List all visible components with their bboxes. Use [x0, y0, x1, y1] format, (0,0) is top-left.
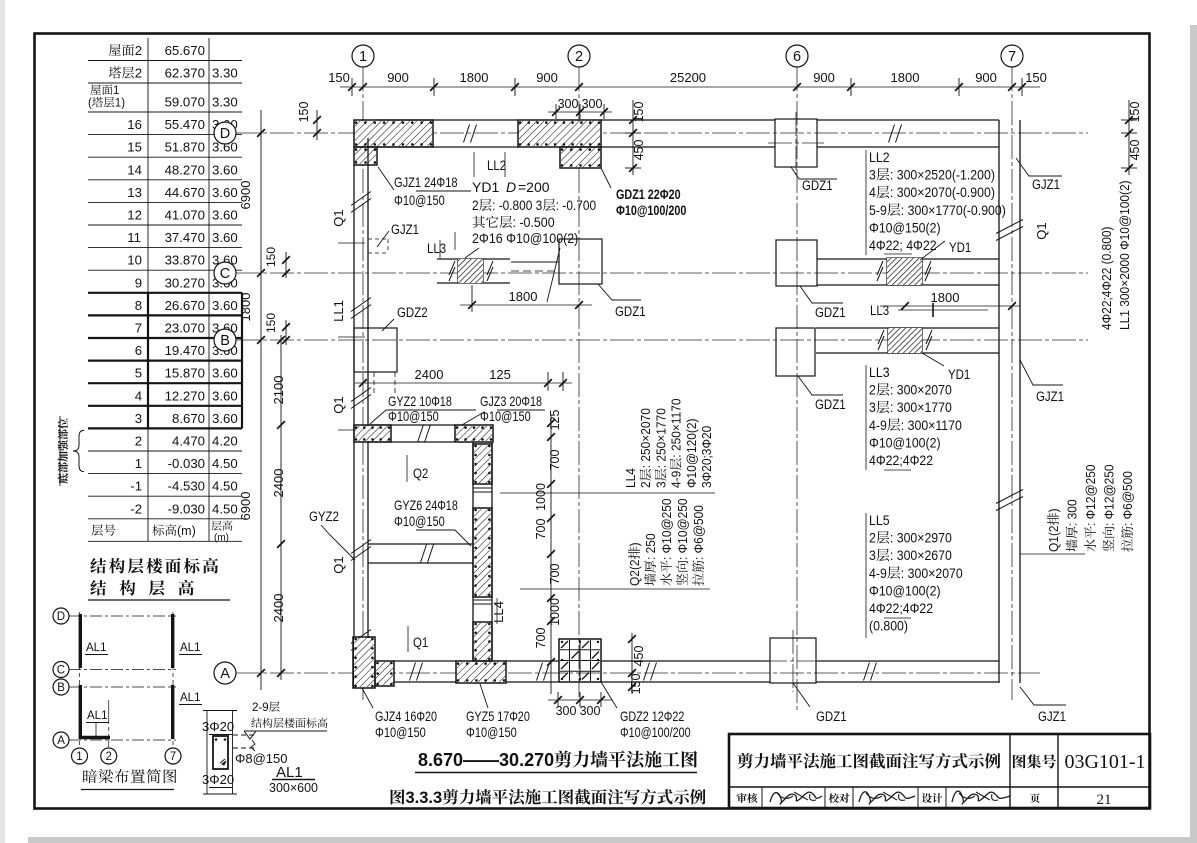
svg-text:4-9: 4-9: [869, 417, 887, 433]
svg-text:A: A: [220, 666, 230, 682]
svg-text:3: 3: [869, 399, 876, 415]
svg-text:300: 300: [580, 704, 601, 718]
svg-text:3.60: 3.60: [212, 366, 238, 381]
svg-text:4Φ22;4Φ22 (0.800): 4Φ22;4Φ22 (0.800): [1100, 227, 1115, 330]
svg-text:900: 900: [813, 70, 835, 85]
svg-text:-4.530: -4.530: [168, 479, 205, 494]
svg-text:3.30: 3.30: [212, 66, 238, 81]
svg-text:GDZ1: GDZ1: [615, 304, 646, 319]
svg-text:LL3: LL3: [869, 364, 890, 380]
svg-text:GDZ1: GDZ1: [815, 305, 846, 320]
svg-text:LL3: LL3: [870, 303, 889, 318]
svg-text:2: 2: [472, 197, 479, 213]
svg-text:125: 125: [489, 367, 511, 382]
svg-text:-1: -1: [130, 479, 142, 494]
svg-text:59.070: 59.070: [165, 95, 205, 110]
svg-text:3.3.3: 3.3.3: [406, 789, 443, 807]
svg-text:3.60: 3.60: [212, 162, 238, 177]
svg-text:Q1: Q1: [1034, 222, 1049, 239]
svg-text:GJZ4 16Φ20: GJZ4 16Φ20: [375, 709, 437, 724]
svg-text:44.670: 44.670: [165, 185, 205, 200]
svg-text:3: 3: [869, 167, 876, 183]
svg-text:125: 125: [548, 409, 562, 430]
svg-text:-2: -2: [130, 501, 142, 516]
svg-text:1800: 1800: [891, 70, 920, 85]
svg-text:LL4: LL4: [624, 468, 639, 488]
svg-text:6900: 6900: [238, 181, 253, 210]
svg-text:1800: 1800: [238, 293, 253, 322]
svg-text:4.50: 4.50: [212, 479, 238, 494]
svg-text:: 250×2070: : 250×2070: [639, 408, 654, 468]
svg-text:2Φ16 Φ10@100(2): 2Φ16 Φ10@100(2): [472, 231, 578, 247]
svg-text:: 300×2070: : 300×2070: [901, 565, 963, 581]
svg-text:C: C: [220, 266, 230, 282]
svg-text:: 250: : 250: [644, 533, 659, 560]
svg-text:300×600: 300×600: [269, 781, 318, 795]
svg-text:8.670: 8.670: [172, 411, 205, 426]
svg-text:4-9: 4-9: [669, 471, 684, 488]
svg-text:4.470: 4.470: [172, 434, 205, 449]
svg-text:700: 700: [548, 449, 562, 470]
svg-text:Φ10@150: Φ10@150: [394, 193, 445, 208]
svg-text:LL2: LL2: [487, 158, 506, 173]
svg-text:900: 900: [536, 70, 558, 85]
svg-text:Φ10@100(2): Φ10@100(2): [869, 583, 941, 599]
svg-text:GYZ2: GYZ2: [309, 509, 339, 524]
svg-text:Φ10@150: Φ10@150: [375, 725, 426, 740]
svg-text:3.60: 3.60: [212, 230, 238, 245]
svg-text:B: B: [57, 682, 65, 694]
svg-text:LL1 300×2000 Φ10@100(2): LL1 300×2000 Φ10@100(2): [1118, 180, 1133, 330]
svg-text:450: 450: [632, 645, 646, 666]
svg-text:1): 1): [115, 98, 125, 110]
svg-text:16: 16: [127, 117, 142, 132]
svg-text:LL5: LL5: [869, 512, 890, 528]
svg-text:150: 150: [1025, 70, 1047, 85]
svg-text:3: 3: [654, 481, 669, 488]
svg-text:1000: 1000: [548, 598, 562, 626]
svg-text:6: 6: [135, 343, 142, 358]
svg-text:Φ10@150: Φ10@150: [394, 514, 445, 529]
svg-text:1800: 1800: [460, 70, 489, 85]
svg-text:C: C: [57, 665, 65, 677]
svg-text:33.870: 33.870: [165, 253, 205, 268]
svg-text:: 300×2070(-0.900): : 300×2070(-0.900): [890, 184, 995, 200]
svg-text:: 250×1170: : 250×1170: [669, 398, 684, 457]
svg-text:(m): (m): [177, 524, 196, 538]
svg-text:Φ10@150: Φ10@150: [388, 409, 439, 424]
svg-text:GDZ1: GDZ1: [816, 709, 847, 724]
svg-text:62.370: 62.370: [165, 66, 205, 81]
svg-text:450: 450: [1128, 139, 1142, 160]
svg-text:Φ10@100(2): Φ10@100(2): [869, 435, 941, 451]
svg-text:7: 7: [170, 751, 176, 763]
svg-text:AL1: AL1: [87, 710, 107, 722]
svg-text:26.670: 26.670: [165, 298, 205, 313]
svg-text:(: (: [88, 98, 92, 110]
svg-text:Φ10@150: Φ10@150: [480, 409, 531, 424]
svg-text:GDZ1: GDZ1: [815, 397, 846, 412]
svg-text:Q2: Q2: [413, 466, 428, 481]
svg-text:8.670——30.270: 8.670——30.270: [418, 750, 554, 770]
svg-text:: Φ6@500: : Φ6@500: [1121, 471, 1136, 526]
svg-text:Φ10@150(2): Φ10@150(2): [869, 220, 941, 236]
svg-text:11: 11: [127, 230, 141, 245]
svg-text:2: 2: [135, 434, 142, 449]
svg-text:YD1: YD1: [949, 240, 971, 255]
svg-text:2400: 2400: [271, 469, 286, 498]
svg-text:-9.030: -9.030: [168, 501, 205, 516]
svg-text:GJZ1: GJZ1: [1036, 389, 1064, 404]
svg-text:300: 300: [582, 97, 603, 111]
svg-text:Q1: Q1: [331, 556, 346, 573]
svg-text:D: D: [506, 179, 516, 195]
svg-text:: 300×2670: : 300×2670: [890, 547, 952, 563]
svg-text:150: 150: [264, 247, 278, 267]
svg-text:41.070: 41.070: [165, 208, 205, 223]
svg-text:13: 13: [127, 185, 142, 200]
svg-text:4Φ22;4Φ22: 4Φ22;4Φ22: [869, 600, 933, 616]
svg-text:6900: 6900: [238, 492, 253, 521]
svg-text:1: 1: [359, 49, 367, 65]
svg-text:GJZ1: GJZ1: [1032, 177, 1060, 192]
svg-text:03G101-1: 03G101-1: [1064, 751, 1145, 773]
svg-text:3Φ20: 3Φ20: [202, 772, 234, 787]
svg-text:4Φ22; 4Φ22: 4Φ22; 4Φ22: [869, 237, 937, 253]
svg-text:2: 2: [639, 481, 654, 488]
svg-text:3.30: 3.30: [212, 95, 238, 110]
svg-text:YD1: YD1: [472, 179, 499, 195]
svg-text:6: 6: [793, 49, 801, 65]
svg-text:1800: 1800: [509, 289, 538, 304]
svg-text:65.670: 65.670: [165, 43, 205, 58]
svg-text:900: 900: [387, 70, 409, 85]
svg-text:: 300×2520(-1.200): : 300×2520(-1.200): [890, 167, 995, 183]
svg-text:5-9: 5-9: [869, 202, 887, 218]
svg-text:3.60: 3.60: [212, 208, 238, 223]
svg-text:LL3: LL3: [427, 241, 446, 256]
svg-text:3.60: 3.60: [212, 298, 238, 313]
svg-text:150: 150: [1128, 101, 1142, 122]
svg-text:4: 4: [135, 388, 142, 403]
svg-text:GJZ3 20Φ18: GJZ3 20Φ18: [480, 394, 542, 409]
svg-text:A: A: [57, 735, 65, 747]
svg-text:2: 2: [869, 530, 876, 546]
svg-text:3.60: 3.60: [212, 185, 238, 200]
svg-text:150: 150: [264, 313, 278, 333]
svg-text:21: 21: [1097, 792, 1112, 808]
svg-text:1: 1: [76, 751, 82, 763]
svg-text:B: B: [220, 333, 230, 349]
svg-text:AL1: AL1: [86, 642, 106, 654]
svg-text:3.60: 3.60: [212, 411, 238, 426]
svg-text:450: 450: [632, 139, 646, 160]
svg-text:9: 9: [135, 275, 142, 290]
svg-text:: 250×1770: : 250×1770: [654, 408, 669, 468]
svg-text:1: 1: [113, 85, 119, 97]
svg-text:: Φ10@250: : Φ10@250: [660, 498, 675, 560]
svg-text:700: 700: [534, 627, 548, 648]
svg-text:Q2(2: Q2(2: [628, 559, 643, 586]
svg-text:Q1: Q1: [331, 396, 346, 413]
svg-text:700: 700: [548, 563, 562, 584]
svg-text:: 300×2970: : 300×2970: [890, 530, 952, 546]
svg-text:19.470: 19.470: [165, 343, 205, 358]
svg-text:7: 7: [135, 321, 142, 336]
svg-text:Q1: Q1: [331, 209, 346, 226]
svg-text:25200: 25200: [670, 70, 706, 85]
svg-text:Φ10@120(2): Φ10@120(2): [684, 418, 699, 488]
svg-text:: -0.500: : -0.500: [513, 215, 555, 231]
svg-text:900: 900: [975, 70, 997, 85]
svg-text:4.50: 4.50: [212, 456, 238, 471]
svg-text:2: 2: [869, 382, 876, 398]
svg-text:2400: 2400: [415, 367, 444, 382]
svg-text:2400: 2400: [271, 594, 286, 623]
svg-text:AL1: AL1: [180, 692, 200, 704]
svg-text:700: 700: [534, 518, 548, 539]
svg-text:1000: 1000: [534, 483, 548, 511]
svg-text:150: 150: [632, 101, 646, 122]
svg-text:2-9: 2-9: [252, 702, 269, 714]
svg-text:Φ10@100/200: Φ10@100/200: [616, 203, 687, 218]
svg-text:: 300×1770(-0.900): : 300×1770(-0.900): [901, 202, 1006, 218]
svg-text:23.070: 23.070: [165, 321, 205, 336]
svg-text:-0.030: -0.030: [168, 456, 205, 471]
svg-text:GJZ1: GJZ1: [1038, 709, 1066, 724]
svg-text:150: 150: [328, 70, 350, 85]
svg-text:4Φ22;4Φ22: 4Φ22;4Φ22: [869, 452, 933, 468]
svg-text:: Φ12@250: : Φ12@250: [1084, 464, 1099, 526]
svg-text:(0.800): (0.800): [869, 618, 908, 634]
svg-text:3Φ20: 3Φ20: [202, 719, 234, 734]
svg-text:AL1: AL1: [276, 764, 303, 781]
svg-text:GYZ6 24Φ18: GYZ6 24Φ18: [394, 498, 458, 513]
svg-text:GDZ1 22Φ20: GDZ1 22Φ20: [616, 187, 681, 202]
svg-text:3.60: 3.60: [212, 388, 238, 403]
svg-text:3: 3: [135, 411, 142, 426]
svg-text:1800: 1800: [931, 290, 960, 305]
svg-text:GJZ1 24Φ18: GJZ1 24Φ18: [394, 175, 458, 190]
svg-text:4.20: 4.20: [212, 434, 238, 449]
svg-text:55.470: 55.470: [165, 117, 205, 132]
svg-text:10: 10: [127, 253, 142, 268]
svg-text:AL1: AL1: [180, 642, 200, 654]
svg-text:GYZ2 10Φ18: GYZ2 10Φ18: [388, 394, 452, 409]
svg-text:150: 150: [297, 101, 311, 122]
svg-text:: 300×2070: : 300×2070: [890, 382, 952, 398]
svg-text:GJZ1: GJZ1: [391, 222, 419, 237]
svg-text:: Φ10@250: : Φ10@250: [676, 498, 691, 560]
svg-text:Q1(2: Q1(2: [1047, 525, 1062, 552]
svg-text:3Φ20;3Φ20: 3Φ20;3Φ20: [700, 426, 715, 488]
svg-text:8: 8: [135, 298, 142, 313]
svg-text:Φ10@150: Φ10@150: [466, 725, 517, 740]
svg-text:4: 4: [869, 184, 876, 200]
svg-text:: Φ12@250: : Φ12@250: [1102, 464, 1117, 526]
svg-text:LL4: LL4: [491, 601, 506, 623]
svg-text:51.870: 51.870: [165, 140, 205, 155]
svg-text:YD1: YD1: [948, 367, 970, 382]
svg-text:2: 2: [135, 43, 142, 58]
svg-text:7: 7: [1008, 49, 1016, 65]
svg-text:2: 2: [135, 66, 142, 81]
svg-text:D: D: [220, 126, 230, 142]
svg-text:1: 1: [135, 456, 142, 471]
svg-text:: 300×1770: : 300×1770: [890, 399, 952, 415]
svg-text:30.270: 30.270: [165, 275, 205, 290]
svg-text:300: 300: [558, 97, 579, 111]
svg-text:15: 15: [127, 140, 142, 155]
svg-text:14: 14: [127, 162, 142, 177]
svg-text:2100: 2100: [271, 376, 286, 405]
svg-text:): ): [1047, 508, 1062, 512]
svg-text:12: 12: [127, 208, 142, 223]
svg-text:150: 150: [629, 673, 643, 694]
svg-text:12.270: 12.270: [165, 388, 205, 403]
svg-text:5: 5: [135, 366, 142, 381]
svg-text:300: 300: [556, 704, 577, 718]
svg-text:GDZ2 12Φ22: GDZ2 12Φ22: [620, 709, 685, 724]
svg-text:: -0.700: : -0.700: [556, 197, 596, 213]
svg-text:GDZ2: GDZ2: [397, 305, 428, 320]
svg-text:4.50: 4.50: [212, 501, 238, 516]
svg-text:GDZ1: GDZ1: [802, 178, 833, 193]
svg-text:D: D: [57, 611, 65, 623]
svg-text:15.870: 15.870: [165, 366, 205, 381]
svg-text:48.270: 48.270: [165, 162, 205, 177]
svg-text:LL1: LL1: [331, 300, 346, 322]
svg-text:GYZ5 17Φ20: GYZ5 17Φ20: [466, 709, 530, 724]
svg-text:3: 3: [869, 547, 876, 563]
svg-text:LL2: LL2: [869, 149, 890, 165]
svg-text:): ): [628, 542, 643, 546]
svg-text:: -0.800 3: : -0.800 3: [492, 197, 542, 213]
svg-text:=200: =200: [518, 179, 550, 195]
svg-text:Q1: Q1: [413, 635, 428, 650]
svg-text:: 300: : 300: [1065, 499, 1080, 526]
svg-text:37.470: 37.470: [165, 230, 205, 245]
svg-text:: 300×1170: : 300×1170: [901, 417, 962, 433]
svg-text:2: 2: [106, 751, 112, 763]
svg-text:Φ10@100/200: Φ10@100/200: [620, 725, 691, 740]
svg-text:2: 2: [575, 49, 583, 65]
svg-text:4-9: 4-9: [869, 565, 887, 581]
svg-text:: Φ6@500: : Φ6@500: [692, 505, 707, 560]
